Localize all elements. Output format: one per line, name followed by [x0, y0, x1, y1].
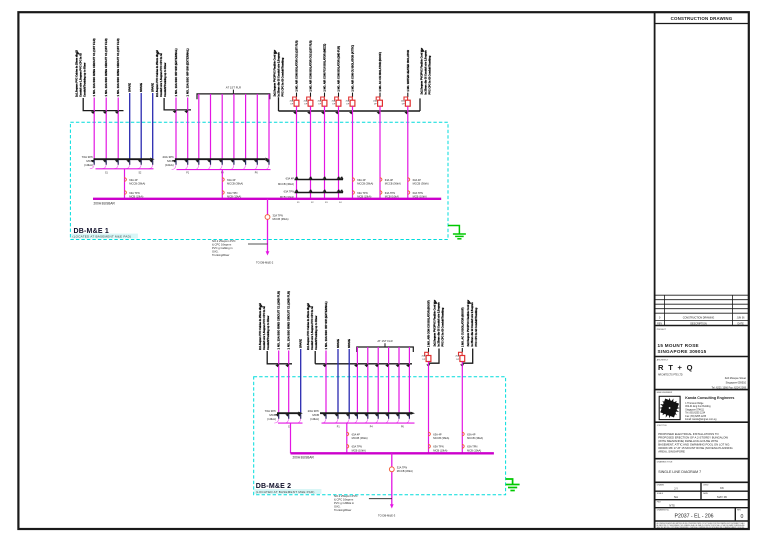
svg-text:P6: P6 [401, 427, 405, 429]
svg-text:SPARE: SPARE [128, 83, 132, 92]
svg-text:DP: DP [402, 104, 406, 106]
svg-text:1 NO. AIR CON ISOLATOR CU2 (1S: 1 NO. AIR CON ISOLATOR CU2 (1ST FLR) [309, 40, 313, 91]
MCB way SB2-1 [173, 160, 177, 163]
svg-text:63A TPN: 63A TPN [352, 445, 362, 449]
group bracket AT 1ST FLR D2 [357, 347, 414, 352]
svg-text:MCCB (36kA): MCCB (36kA) [397, 469, 413, 473]
svg-text:P6: P6 [255, 172, 259, 174]
revision table [655, 294, 749, 296]
MCB way SB2-2 [184, 160, 188, 163]
svg-text:AT 1ST FLR: AT 1ST FLR [226, 86, 241, 90]
svg-text:in 25mm dia GI Conduit c/w 2.5: in 25mm dia GI Conduit c/w 2.5sqmm [278, 52, 281, 97]
svg-text:63A 4P: 63A 4P [357, 178, 366, 182]
svg-text:20A: 20A [290, 99, 294, 102]
svg-text:63A 4P: 63A 4P [385, 178, 394, 182]
svg-text:0: 0 [659, 316, 661, 320]
svg-text:PVC g CABLE in: PVC g CABLE in [334, 501, 355, 505]
svg-text:2x2.5sqmm PVC/PVC Flexible Cor: 2x2.5sqmm PVC/PVC Flexible Cord c/w [434, 300, 437, 347]
svg-text:2x2.5sqmm PVC/PVC Flexible Cor: 2x2.5sqmm PVC/PVC Flexible Cord c/w [467, 300, 470, 347]
linked breaker bars group D1 [295, 179, 344, 181]
svg-text:MAY 06: MAY 06 [717, 495, 727, 499]
svg-text:20A: 20A [401, 99, 405, 102]
collector line SB2 D2 [322, 422, 415, 424]
fields chkd date [655, 499, 749, 501]
MCB way D2-SB1-1 [275, 414, 279, 417]
svg-text:Conduit/Trunking up to Riser: Conduit/Trunking up to Riser [84, 63, 87, 97]
panel drop P2 [221, 170, 223, 199]
lighting riser D2 LT-5 [398, 347, 400, 413]
svg-text:R T + Q: R T + Q [658, 363, 694, 372]
aircon manifold left lead [278, 97, 280, 111]
svg-text:MCCB (36kA): MCCB (36kA) [413, 182, 429, 186]
svg-text:P1: P1 [337, 427, 341, 429]
svg-text:20A: 20A [455, 355, 459, 358]
svg-text:DP: DP [346, 104, 350, 106]
lighting riser D2 LT-2 [367, 347, 369, 413]
svg-text:M&E ENGINEER: M&E ENGINEER [657, 392, 673, 394]
svg-text:1 NO. AIR CON ISOLATOR (2ND FL: 1 NO. AIR CON ISOLATOR (2ND FLR) [337, 46, 341, 92]
panel drop D2 P2 [346, 423, 348, 453]
MCB way SB2-8 [254, 160, 258, 163]
svg-text:32A TPN: 32A TPN [397, 466, 407, 470]
circuit riser D2 L1-1 [278, 351, 280, 414]
MCB way D2-SB2-8 [396, 414, 400, 417]
svg-text:SINGAPORE 309015: SINGAPORE 309015 [658, 349, 707, 354]
svg-text:2x1.5sqmm PVC Cables in 25mm d: 2x1.5sqmm PVC Cables in 25mm dia GI [307, 303, 310, 350]
svg-text:F1: F1 [297, 202, 300, 204]
svg-text:Fax: (65) 6255 1235: Fax: (65) 6255 1235 [685, 416, 706, 418]
svg-text:Conduit c/w 1.5sqmm PVC CPC in: Conduit c/w 1.5sqmm PVC CPC in GI [263, 306, 266, 350]
svg-text:20A: 20A [422, 355, 426, 358]
title block header box [655, 23, 749, 25]
svg-text:1 NO. 13A SSO WP SW (EXTERNAL): 1 NO. 13A SSO WP SW (EXTERNAL) [324, 301, 328, 349]
sub-busbar SB1 70A 3Ph [94, 158, 151, 160]
svg-text:20A: 20A [318, 99, 322, 102]
svg-text:DP: DP [318, 104, 322, 106]
svg-text:(10kA): (10kA) [310, 417, 319, 421]
svg-text:(LOCATED AT BASEMENT M&E PAD): (LOCATED AT BASEMENT M&E PAD) [256, 490, 315, 494]
MCB way D2-SB2-2 [335, 414, 339, 417]
svg-text:63A 4P: 63A 4P [227, 178, 236, 182]
svg-text:Email: kanda@singnet.com.sg: Email: kanda@singnet.com.sg [685, 418, 717, 421]
svg-text:Conduit c/w 1.5sqmm PVC CPC in: Conduit c/w 1.5sqmm PVC CPC in GI [80, 53, 83, 97]
svg-text:20A: 20A [304, 99, 308, 102]
aircon riser D2 AC-2 [461, 362, 463, 454]
spare riser SP1-2 [140, 93, 142, 159]
switch-fuse SF1-5 [352, 93, 354, 97]
svg-text:JUN 06: JUN 06 [737, 318, 745, 320]
svg-text:2x1.5sqmm PVC Cables in 25mm d: 2x1.5sqmm PVC Cables in 25mm dia GI [76, 50, 79, 97]
svg-text:MCCB (36kA): MCCB (36kA) [433, 436, 449, 440]
main busbar 200A DB-M&E 1 [93, 198, 441, 200]
svg-text:DRAWING TITLE: DRAWING TITLE [657, 460, 673, 463]
svg-text:63A 4P: 63A 4P [352, 432, 361, 436]
svg-text:Tel: (65) 6255 1234: Tel: (65) 6255 1234 [685, 413, 706, 415]
lighting riser D2 LT-4 [388, 347, 390, 413]
svg-text:GI/G,: GI/G, [212, 250, 219, 254]
lighting riser D2 LT-3 [377, 347, 379, 413]
MCB way SB1-1 [91, 160, 95, 163]
svg-text:1 NO. 13A SSO RING CIRCUIT C1: 1 NO. 13A SSO RING CIRCUIT C1 (2ND FLR) [277, 291, 281, 350]
svg-text:(10kA): (10kA) [267, 417, 276, 421]
svg-text:FILE: FILE [657, 502, 662, 504]
svg-text:PROJECT: PROJECT [657, 329, 667, 331]
circuit riser D2 L1-2 [288, 351, 290, 414]
svg-text:NO.2 25sqmm PVC: NO.2 25sqmm PVC [212, 239, 236, 243]
svg-text:CONSTRUCTION DRAWING: CONSTRUCTION DRAWING [671, 16, 733, 21]
svg-text:MCCB (36kA): MCCB (36kA) [227, 182, 243, 186]
svg-text:Conduit/Trunking up to Riser: Conduit/Trunking up to Riser [164, 63, 167, 97]
svg-text:DRAWN: DRAWN [657, 483, 665, 486]
aircon riser AC-2 [310, 106, 312, 198]
svg-text:PVC g Cabling in: PVC g Cabling in [212, 246, 233, 250]
collector line SB1 D2 [278, 422, 303, 424]
breaker pair on aircon riser [380, 178, 382, 182]
svg-text:1 NO. AIR CON CU ISOLATOR (ROO: 1 NO. AIR CON CU ISOLATOR (ROOF) [427, 300, 431, 347]
spare riser D2 SP-1 [300, 349, 302, 413]
svg-text:MCCB (36kA): MCCB (36kA) [467, 436, 483, 440]
svg-text:DATE: DATE [703, 492, 709, 495]
svg-text:NA: NA [674, 495, 678, 499]
lighting riser LT-5 [245, 94, 247, 159]
svg-text:ARCHITECT: ARCHITECT [657, 358, 669, 361]
breaker pair on aircon riser [352, 178, 354, 182]
switch-fuse D2 SF-1 [428, 348, 430, 352]
feeder F2 black lead D2 [314, 351, 316, 364]
switch-fuse SF1-1 [296, 93, 298, 97]
svg-text:AT 1ST FLR: AT 1ST FLR [377, 339, 392, 343]
MCB way SB2-6 [231, 160, 235, 163]
svg-text:63A TPN: 63A TPN [129, 191, 139, 195]
breaker 63A 4P MCCB on P1 [124, 178, 126, 182]
DB-M&E 1 enclosure dashed box [70, 122, 448, 239]
svg-text:SPARE: SPARE [299, 339, 303, 348]
svg-text:F4: F4 [339, 202, 342, 204]
svg-text:(LOCATED AT BASEMENT M&E PAD): (LOCATED AT BASEMENT M&E PAD) [73, 235, 132, 239]
svg-text:& CPC 16sqmm: & CPC 16sqmm [334, 498, 354, 502]
svg-text:#02-01 Eng Fun Building: #02-01 Eng Fun Building [685, 406, 711, 408]
svg-text:in 25mm dia GI Conduit c/w 2.5: in 25mm dia GI Conduit c/w 2.5sqmm [425, 50, 428, 95]
switch-fuse D2 feeder lead 2 [462, 349, 472, 364]
feeder F2 black lead [164, 98, 191, 110]
svg-text:2x2.5sqmm PVC/PVC Flexible Cor: 2x2.5sqmm PVC/PVC Flexible Cord c/w [274, 50, 277, 97]
svg-text:SPARE: SPARE [347, 339, 351, 348]
breaker 63A TPN MCB on P1 [124, 191, 126, 195]
svg-text:TO DB-M&E-2: TO DB-M&E-2 [256, 261, 274, 265]
sub-busbar SB2 20A 3Ph [175, 158, 265, 160]
aircon riser AC-3 [324, 106, 326, 198]
svg-text:200A BUSBAR: 200A BUSBAR [293, 456, 315, 460]
svg-text:AREA), SINGAPORE: AREA), SINGAPORE [658, 450, 685, 454]
lighting riser LT-4 [233, 94, 235, 159]
svg-text:CONSTRUCTION DRAWING: CONSTRUCTION DRAWING [683, 317, 715, 320]
svg-text:1 NO. 13A SSO RING CIRCUIT C1: 1 NO. 13A SSO RING CIRCUIT C1 (2ND FLR) [287, 291, 291, 350]
MCB way SB1-4 [126, 160, 130, 163]
sub-busbar SB2 D2 20A 3Ph [320, 412, 411, 414]
svg-text:SPARE: SPARE [151, 83, 155, 92]
svg-text:1 NO. 13A SSO WP SW (EXTERNAL): 1 NO. 13A SSO WP SW (EXTERNAL) [174, 48, 178, 96]
breaker pair on D2 aircon riser 2 [462, 432, 464, 436]
svg-text:20A: 20A [332, 99, 336, 102]
breaker 63A 4P MCCB on D2 P2 [347, 432, 349, 436]
switch-fuse D2 SF-2 [461, 348, 463, 352]
MCB way SB2-4 [207, 160, 211, 163]
svg-text:Singapore 059510: Singapore 059510 [726, 382, 747, 385]
svg-text:(10kA): (10kA) [165, 163, 174, 167]
svg-text:SINGLE LINE DIAGRAM 7: SINGLE LINE DIAGRAM 7 [658, 470, 701, 474]
svg-text:2x2.5sqmm PVC/PVC Flexible Cor: 2x2.5sqmm PVC/PVC Flexible Cord c/w [421, 48, 424, 95]
fields scale drawn [655, 490, 749, 492]
svg-text:1 NO. WATER HEATER ISOLATOR: 1 NO. WATER HEATER ISOLATOR [406, 50, 410, 92]
feeder F1 black lead D2 [267, 351, 292, 364]
svg-text:2x1.5sqmm PVC Cables in 25mm d: 2x1.5sqmm PVC Cables in 25mm dia GI [156, 50, 159, 97]
circuit riser L1-3 [117, 98, 119, 160]
svg-text:Conduit c/w 1.5sqmm PVC CPC in: Conduit c/w 1.5sqmm PVC CPC in GI [311, 306, 314, 350]
svg-text:63A TPN: 63A TPN [227, 191, 237, 195]
lighting riser LT-3 [221, 94, 223, 159]
collector line SB1 [96, 168, 154, 170]
svg-text:200A BUSBAR: 200A BUSBAR [94, 202, 116, 206]
svg-text:DP: DP [422, 359, 426, 361]
lighting riser LT-7 [268, 94, 270, 159]
panel drop P1 [124, 169, 126, 199]
svg-text:1 NO. AC CU ISOLATOR (ROOF): 1 NO. AC CU ISOLATOR (ROOF) [460, 307, 464, 347]
MCB way SB1-5 [138, 160, 142, 163]
outgoing breaker 32A TPN MCCB D2 [389, 467, 394, 472]
svg-text:1 NO. 13A SSO WP SW (EXTERNAL): 1 NO. 13A SSO WP SW (EXTERNAL) [186, 48, 190, 96]
MCB way SB2-7 [242, 160, 246, 163]
svg-text:Conduit/Trunking up to Riser: Conduit/Trunking up to Riser [267, 316, 270, 350]
MCB way D2-SB2-6 [375, 414, 379, 417]
svg-text:PVC CPC in GI Conduit/Trunking: PVC CPC in GI Conduit/Trunking [442, 307, 445, 346]
outgoing feeder drop DB-M&E 2 [391, 453, 393, 505]
svg-text:PVC CPC in GI Conduit/Trunking: PVC CPC in GI Conduit/Trunking [429, 55, 432, 94]
outgoing breaker 32A TPN MCCB [265, 215, 270, 220]
svg-text:DRAWING No.: DRAWING No. [657, 509, 670, 512]
lighting riser D2 LT-6 [408, 347, 410, 413]
svg-text:in 25mm dia GI Conduit c/w 2.5: in 25mm dia GI Conduit c/w 2.5sqmm [471, 302, 474, 347]
svg-text:63A 4P: 63A 4P [467, 432, 476, 436]
svg-text:63A TPN: 63A TPN [413, 191, 423, 195]
MCB way SB1-2 [103, 160, 107, 163]
spare riser SP1-3 [152, 93, 154, 159]
svg-text:1 NO. 13A SSO RING CIRCUIT C1: 1 NO. 13A SSO RING CIRCUIT C1 (1ST FLR) [92, 38, 96, 96]
aircon manifold busbar [279, 110, 421, 112]
svg-text:GI/G,: GI/G, [334, 505, 341, 509]
group bracket AT 1ST FLR [197, 94, 270, 99]
lighting riser LT-2 [210, 94, 212, 159]
svg-text:DP: DP [304, 104, 308, 106]
switch-fuse SF1-7 [407, 93, 409, 97]
circuit riser L1-2 [105, 98, 107, 160]
manifold busbar D2 [315, 363, 412, 365]
main busbar 200A DB-M&E 2 [291, 452, 494, 454]
svg-text:KK: KK [720, 486, 724, 490]
svg-text:DP: DP [374, 104, 378, 106]
DB-M&E 2 enclosure dashed box [254, 377, 506, 495]
MCB way D2-SB2-3 [346, 414, 350, 417]
svg-text:ALL DIMENSIONS ARE IN MILLIMET: ALL DIMENSIONS ARE IN MILLIMETRES UNLESS… [657, 522, 745, 525]
svg-text:P1: P1 [186, 172, 190, 174]
MCB way D2-SB2-5 [364, 414, 368, 417]
svg-text:63A 4P: 63A 4P [286, 177, 295, 181]
lighting riser LT-1 [198, 94, 200, 159]
earth symbol DB-M&E 2 [506, 479, 513, 485]
svg-text:1 NO. AC CU ISOLATOR (ROOF): 1 NO. AC CU ISOLATOR (ROOF) [378, 52, 382, 92]
svg-text:in 25mm dia GI Conduit c/w 2.5: in 25mm dia GI Conduit c/w 2.5sqmm [438, 302, 441, 347]
svg-text:MCCB (36kA): MCCB (36kA) [273, 217, 289, 221]
switch-fuse SF1-3 [324, 93, 326, 97]
svg-text:NO.2 25sqmm PVC: NO.2 25sqmm PVC [334, 494, 358, 498]
svg-text:Trunking/Riser: Trunking/Riser [212, 253, 229, 257]
switch-fuse SF1-6 [379, 93, 381, 97]
svg-text:ARCHITECTS PTE LTD: ARCHITECTS PTE LTD [658, 373, 683, 376]
svg-text:J.Y: J.Y [674, 487, 678, 491]
panel drop D2 P1 [290, 423, 292, 453]
svg-text:DESCRIPTION: DESCRIPTION [690, 323, 707, 326]
circuit riser L1-1 [93, 98, 95, 160]
spare riser SP1-1 [129, 93, 131, 159]
svg-text:20A: 20A [373, 99, 377, 102]
lighting riser LT-6 [256, 94, 258, 159]
spare riser D2 [337, 349, 339, 413]
breaker 63A TPN MCB on P2 [222, 191, 224, 195]
spare riser D2 [348, 349, 350, 413]
svg-text:SPARE: SPARE [336, 339, 340, 348]
svg-text:MCCB (36kA): MCCB (36kA) [357, 182, 373, 186]
svg-text:F3: F3 [325, 202, 328, 204]
svg-text:MCCB (36kA): MCCB (36kA) [352, 436, 368, 440]
svg-text:2x1.5sqmm PVC Cables in 25mm d: 2x1.5sqmm PVC Cables in 25mm dia GI [259, 303, 262, 350]
svg-text:DP: DP [332, 104, 336, 106]
svg-text:Singapore 574611: Singapore 574611 [685, 408, 704, 411]
switch-fuse SF1-4 [338, 93, 340, 97]
svg-text:DATE: DATE [737, 323, 744, 326]
svg-text:63A 4P: 63A 4P [433, 432, 442, 436]
collector line SB2 [177, 169, 271, 171]
MCB way D2-SB2-1 [323, 414, 327, 417]
svg-text:63A 4P: 63A 4P [129, 178, 138, 182]
drawing number box [734, 508, 736, 521]
aircon riser AC-1 [296, 106, 298, 198]
svg-text:S1: S1 [105, 172, 109, 174]
circuit riser D2 L2-1 [325, 351, 327, 414]
svg-text:1 NO. 13A SSO RING CIRCUIT C1: 1 NO. 13A SSO RING CIRCUIT C1 (1ST FLR) [116, 38, 120, 96]
breaker 63A TPN MCB on D2 P2 [347, 445, 349, 449]
svg-text:DP: DP [456, 359, 460, 361]
outgoing feeder drop DB-M&E 1 [267, 199, 269, 252]
svg-text:63A TPN: 63A TPN [433, 445, 443, 449]
aircon riser AC-7 [407, 106, 409, 198]
circuit riser L2-1 [175, 98, 177, 160]
svg-text:63A TPN: 63A TPN [467, 445, 477, 449]
svg-text:DP: DP [290, 104, 294, 106]
svg-text:MCB (10kA): MCB (10kA) [433, 448, 447, 452]
svg-text:NTS: NTS [669, 503, 675, 507]
MCB way SB1-6 [149, 160, 153, 163]
svg-text:1 NO. 13A SSO RING CIRCUIT C1: 1 NO. 13A SSO RING CIRCUIT C1 (1ST FLR) [104, 38, 108, 96]
svg-text:1 NO. AIR CON CU ISOLATOR (ATT: 1 NO. AIR CON CU ISOLATOR (ATTIC) [351, 45, 355, 92]
svg-text:Kanda Consulting Engineers: Kanda Consulting Engineers [685, 396, 734, 400]
feeder F1 black lead [83, 98, 123, 111]
lighting riser D2 LT-1 [356, 347, 358, 413]
fields file [655, 507, 749, 509]
svg-text:20A: 20A [346, 99, 350, 102]
breaker 63A 4P MCCB on P2 [222, 178, 224, 182]
svg-text:Conduit c/w 1.5sqmm PVC CPC in: Conduit c/w 1.5sqmm PVC CPC in GI [160, 53, 163, 97]
breaker pair on D2 aircon riser 1 [428, 432, 430, 436]
svg-text:MCB (10kA): MCB (10kA) [352, 448, 366, 452]
svg-text:S2: S2 [139, 172, 143, 174]
svg-text:SPARE: SPARE [139, 83, 143, 92]
svg-text:JOB TITLE: JOB TITLE [657, 425, 668, 427]
MCB way D2-SB2-7 [385, 414, 389, 417]
svg-text:SCALE: SCALE [657, 492, 664, 495]
earth symbol DB-M&E 1 [448, 226, 459, 235]
svg-text:PVC CPC in GI Conduit/Trunking: PVC CPC in GI Conduit/Trunking [282, 57, 285, 96]
sub-busbar SB1 D2 70A 3Ph [277, 412, 299, 414]
title block left divider [654, 12, 656, 529]
svg-text:REV: REV [657, 323, 662, 326]
svg-text:32A Mosque Street: 32A Mosque Street [725, 377, 747, 380]
MCB way D2-SB1-3 [297, 414, 301, 417]
svg-text:32A TPN: 32A TPN [273, 213, 283, 217]
breaker pair on aircon riser [408, 178, 410, 182]
svg-text:P4: P4 [370, 427, 374, 429]
aircon manifold right lead [419, 98, 421, 111]
MCB way SB2-9 [266, 160, 270, 163]
svg-text:Conduit/Trunking up to Riser: Conduit/Trunking up to Riser [315, 316, 318, 350]
MCB way D2-SB2-4 [354, 414, 358, 417]
svg-text:1 Thomson Ridge: 1 Thomson Ridge [685, 403, 704, 405]
outgoing arrow 2 [390, 504, 394, 508]
svg-text:(10kA): (10kA) [84, 163, 93, 167]
MCB way SB2-3 [195, 160, 199, 163]
MCB way D2-SB1-2 [285, 414, 289, 417]
svg-text:PVC CPC in GI Conduit/Trunking: PVC CPC in GI Conduit/Trunking [475, 307, 478, 346]
svg-text:63A 4P: 63A 4P [413, 178, 422, 182]
svg-text:1 NO. AIR CON FCU ISOLATOR (ME: 1 NO. AIR CON FCU ISOLATOR (MEZZ) [323, 44, 327, 92]
svg-text:15 MOUNT ROSE: 15 MOUNT ROSE [658, 343, 699, 348]
svg-text:REV: REV [737, 510, 742, 512]
switch-fuse SF1-2 [310, 93, 312, 97]
svg-text:MCCB (36kA): MCCB (36kA) [129, 182, 145, 186]
svg-text:MCCB (36kA): MCCB (36kA) [278, 182, 294, 186]
MCB way SB2-5 [219, 160, 223, 163]
svg-text:& CPC 16sqmm: & CPC 16sqmm [212, 243, 232, 247]
aircon riser D2 AC-1 [428, 362, 430, 454]
svg-text:F2: F2 [311, 202, 314, 204]
svg-text:0: 0 [741, 514, 744, 520]
svg-text:MCB (10kA): MCB (10kA) [467, 448, 481, 452]
svg-text:63A TPN: 63A TPN [357, 191, 367, 195]
MCB way D2-SB2-9 [406, 414, 410, 417]
outgoing arrow 1 [266, 251, 270, 255]
svg-text:CHKD: CHKD [703, 484, 709, 486]
svg-text:TO DB-M&E-3: TO DB-M&E-3 [378, 514, 396, 518]
MCB way SB1-3 [115, 160, 119, 163]
aircon riser AC-4 [338, 106, 340, 198]
svg-text:1 NO. AIR CON ISOLATOR CU1 (1S: 1 NO. AIR CON ISOLATOR CU1 (1ST FLR) [295, 40, 299, 91]
svg-text:63A TPN: 63A TPN [284, 190, 294, 194]
switch-fuse D2 feeder lead 1 [429, 349, 440, 364]
svg-text:Trunking/Riser: Trunking/Riser [334, 508, 351, 512]
svg-text:MCCB (36kA): MCCB (36kA) [385, 182, 401, 186]
svg-text:63A TPN: 63A TPN [385, 191, 395, 195]
aircon riser AC-5 [352, 106, 354, 198]
aircon riser AC-6 [379, 106, 381, 198]
circuit riser L2-2 [187, 98, 189, 160]
